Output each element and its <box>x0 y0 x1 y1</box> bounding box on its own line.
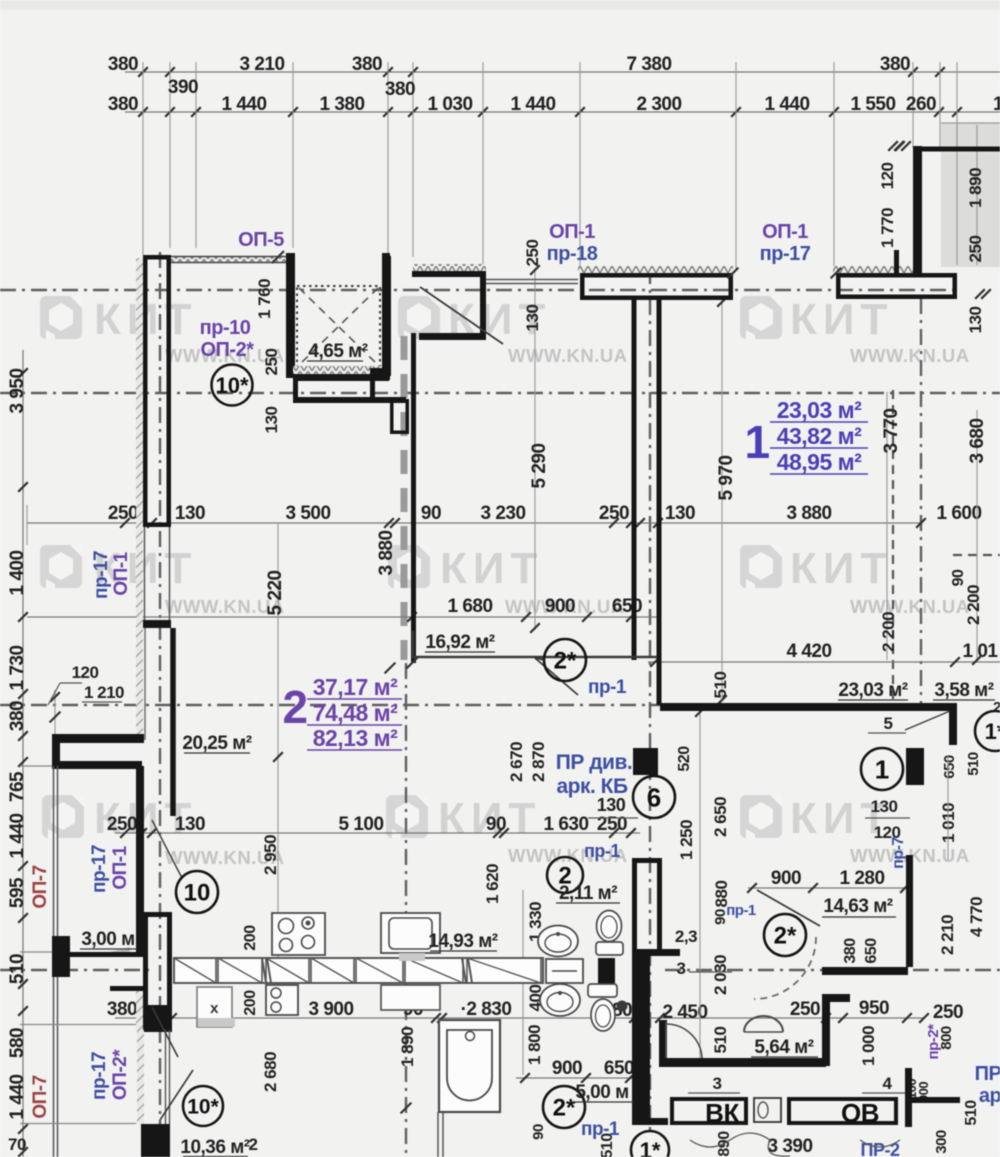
svg-text:2 670: 2 670 <box>507 742 526 782</box>
under counter appliance <box>266 985 298 1015</box>
svg-text:1 890: 1 890 <box>398 1027 417 1067</box>
shower arc <box>744 1016 783 1032</box>
svg-text:ОП-7: ОП-7 <box>30 865 51 908</box>
dashed wall y555 <box>953 554 1000 556</box>
svg-text:1*: 1* <box>640 1138 661 1157</box>
svg-text:пр-18: пр-18 <box>547 243 598 265</box>
wall x906 y855 <box>906 855 913 967</box>
svg-text:2 200: 2 200 <box>964 585 983 625</box>
entrance dashed arc <box>754 937 816 999</box>
svg-text:5 970: 5 970 <box>716 455 737 500</box>
bathtub <box>439 1020 500 1112</box>
svg-text:3 500: 3 500 <box>285 503 330 524</box>
svg-text:пр-1: пр-1 <box>584 841 620 861</box>
svg-text:10,36 м²: 10,36 м² <box>180 1137 249 1157</box>
svg-text:2 450: 2 450 <box>662 1002 707 1023</box>
leader 130/120 right <box>865 817 910 819</box>
svg-text:WWW.KN.UA: WWW.KN.UA <box>850 596 970 617</box>
window пр-18 <box>578 266 733 273</box>
svg-text:2 650: 2 650 <box>711 797 730 837</box>
svg-text:КИТ: КИТ <box>790 544 893 593</box>
svg-text:ВК: ВК <box>705 1098 739 1128</box>
svg-text:90: 90 <box>486 814 506 835</box>
svg-text:7 380: 7 380 <box>626 54 671 75</box>
kitchen sink <box>381 913 440 953</box>
svg-text:90: 90 <box>421 503 441 524</box>
svg-text:пр-17: пр-17 <box>760 243 811 265</box>
svg-text:ОП-1: ОП-1 <box>110 845 131 889</box>
svg-text:1 770: 1 770 <box>878 208 897 248</box>
bubble 2* bath <box>543 1086 585 1128</box>
svg-text:1 760: 1 760 <box>255 279 274 319</box>
svg-text:1 440: 1 440 <box>7 1074 28 1119</box>
svg-text:КИТ: КИТ <box>440 544 543 593</box>
svg-text:900: 900 <box>771 868 801 889</box>
svg-text:4 420: 4 420 <box>786 641 831 662</box>
svg-text:10*: 10* <box>187 1096 219 1119</box>
axis vertical x921 <box>920 298 922 703</box>
T wall box A <box>582 275 731 298</box>
dim row 1 <box>125 71 1000 73</box>
svg-text:3 950: 3 950 <box>7 368 28 413</box>
pier left of shaft <box>286 253 295 378</box>
washer <box>546 959 583 983</box>
svg-text:130: 130 <box>597 795 626 815</box>
svg-text:пр-1: пр-1 <box>581 1119 620 1140</box>
svg-text:1 380: 1 380 <box>319 94 364 115</box>
window lines in left wall 527-620 <box>144 527 146 620</box>
svg-text:3 880: 3 880 <box>786 503 831 524</box>
svg-text:510: 510 <box>965 752 982 776</box>
loggia divider walls <box>136 766 144 952</box>
svg-text:3 680: 3 680 <box>967 418 988 463</box>
watermark row3 <box>42 795 84 838</box>
shaft dotted box 4.65 <box>297 286 380 367</box>
svg-text:пр-17: пр-17 <box>89 845 110 893</box>
svg-text:1: 1 <box>875 754 889 784</box>
door diag room 14,63 <box>757 890 820 926</box>
loggia sills <box>20 1024 136 1026</box>
duct wall lines <box>632 300 637 660</box>
svg-text:3 390: 3 390 <box>767 1136 812 1157</box>
svg-text:3: 3 <box>713 1074 722 1093</box>
dim row y523 <box>27 522 921 524</box>
svg-text:1: 1 <box>744 416 769 468</box>
svg-text:1 620: 1 620 <box>483 864 502 904</box>
svg-text:1 01: 1 01 <box>963 641 999 662</box>
kitchen niche boundary <box>413 631 657 657</box>
leader wall5 <box>905 711 950 730</box>
dim row y617 <box>27 616 658 618</box>
svg-text:4,65 м²: 4,65 м² <box>308 341 367 362</box>
leader circle10 <box>152 820 182 878</box>
svg-text:2: 2 <box>282 681 307 733</box>
svg-text:130: 130 <box>665 503 695 524</box>
svg-text:130: 130 <box>262 407 281 434</box>
corridor double line <box>486 279 578 281</box>
svg-text:2,11 м²: 2,11 м² <box>559 883 617 904</box>
svg-text:595: 595 <box>7 877 28 908</box>
bubble 2 wc <box>547 857 583 893</box>
wall piece x906 y748 <box>906 748 924 785</box>
svg-text:510: 510 <box>7 954 28 984</box>
svg-text:ОП-2*: ОП-2* <box>110 1049 131 1100</box>
kitchen west pier box <box>146 915 170 1030</box>
wall chunk above bubble 6 <box>633 748 658 775</box>
bathroom2 sink <box>540 984 580 1016</box>
door diag hall <box>420 287 503 344</box>
svg-text:1 000: 1 000 <box>859 1026 878 1066</box>
dim row y1078 <box>516 1077 640 1079</box>
svg-text:5 290: 5 290 <box>529 443 550 488</box>
dim row y1018 <box>115 1017 924 1019</box>
svg-text:1 250: 1 250 <box>677 820 696 860</box>
svg-text:520: 520 <box>676 746 693 772</box>
svg-text:ОП-1: ОП-1 <box>762 221 808 243</box>
svg-text:580: 580 <box>7 1028 28 1058</box>
dim row y663 <box>648 661 1000 663</box>
svg-text:260: 260 <box>906 94 936 115</box>
svg-text:КИТ: КИТ <box>790 295 893 344</box>
svg-text:ар: ар <box>979 1085 1000 1107</box>
svg-text:x: x <box>210 1000 219 1017</box>
svg-text:2 870: 2 870 <box>529 742 548 782</box>
soil stack <box>617 1001 628 1012</box>
svg-text:380: 380 <box>108 94 138 115</box>
wall box bottom-left <box>52 734 144 743</box>
svg-text:16,92 м²: 16,92 м² <box>425 632 494 653</box>
dim row y888 <box>748 887 908 889</box>
svg-text:ОП-2*: ОП-2* <box>201 339 255 361</box>
svg-text:1 440: 1 440 <box>510 94 555 115</box>
svg-text:1 890: 1 890 <box>966 168 985 208</box>
svg-text:1 680: 1 680 <box>447 596 492 617</box>
svg-text:48,95 м²: 48,95 м² <box>777 449 862 475</box>
svg-text:510: 510 <box>711 1027 730 1054</box>
svg-text:6: 6 <box>647 782 661 812</box>
window ОП-5 top <box>171 256 287 263</box>
bubble 1 room1 <box>861 748 903 790</box>
door diag room2 <box>535 658 578 695</box>
black bar y620 left wall <box>143 620 171 628</box>
bubble 1* bottom <box>631 1131 669 1157</box>
svg-text:ПР див.: ПР див. <box>556 751 632 774</box>
svg-text:130: 130 <box>175 503 205 524</box>
svg-text:2 300: 2 300 <box>636 94 681 115</box>
svg-text:765: 765 <box>7 771 28 802</box>
svg-text:380: 380 <box>7 701 28 731</box>
svg-text:4: 4 <box>883 1074 893 1093</box>
svg-text:арк. КБ: арк. КБ <box>556 775 628 798</box>
svg-text:2: 2 <box>249 1135 258 1154</box>
svg-text:2 6: 2 6 <box>993 699 1000 716</box>
svg-text:1 600: 1 600 <box>936 503 981 524</box>
bubble 2* room2 <box>544 639 586 681</box>
svg-text:1 4: 1 4 <box>993 94 1000 115</box>
balcony separation wall <box>913 146 922 273</box>
svg-text:14,93 м²: 14,93 м² <box>428 931 497 952</box>
svg-text:1 210: 1 210 <box>84 683 124 702</box>
svg-text:950: 950 <box>859 998 889 1019</box>
wall y967 right <box>822 967 908 975</box>
svg-text:23,03 м²: 23,03 м² <box>838 680 907 701</box>
svg-text:ОП-7: ОП-7 <box>30 1075 51 1118</box>
svg-text:380: 380 <box>108 54 138 75</box>
svg-text:900: 900 <box>545 596 575 617</box>
svg-text:2*: 2* <box>554 648 577 675</box>
svg-text:2*: 2* <box>553 1095 576 1122</box>
WC door arc <box>665 1022 667 1058</box>
svg-text:3,58 м²: 3,58 м² <box>934 680 993 701</box>
svg-text:2,3: 2,3 <box>675 927 697 946</box>
svg-text:200: 200 <box>242 925 259 951</box>
svg-text:250: 250 <box>790 999 820 1020</box>
svg-text:250: 250 <box>108 503 138 524</box>
svg-text:70: 70 <box>8 1135 26 1154</box>
partition hatched band <box>174 958 543 983</box>
svg-text:4 770: 4 770 <box>967 897 986 937</box>
svg-text:WWW.KN.UA: WWW.KN.UA <box>850 345 970 366</box>
svg-text:90: 90 <box>530 1124 547 1140</box>
svg-text:250: 250 <box>523 240 542 267</box>
svg-text:130: 130 <box>523 305 542 332</box>
loggia diagonals <box>152 1007 178 1057</box>
axis A horizontal <box>0 289 958 291</box>
svg-text:23,03 м²: 23,03 м² <box>777 397 862 423</box>
svg-text:390: 390 <box>168 77 198 98</box>
bubble 10* loggia <box>183 1086 223 1126</box>
svg-text:250: 250 <box>597 814 627 835</box>
left dim column <box>22 350 24 1157</box>
bubble 10* hall <box>212 365 253 406</box>
svg-text:2 210: 2 210 <box>938 915 957 955</box>
svg-text:1 030: 1 030 <box>427 94 472 115</box>
bathroom2 toilet <box>588 984 617 997</box>
svg-text:3 770: 3 770 <box>881 408 902 453</box>
hatch strip left exterior wall <box>136 258 143 740</box>
svg-text:1 730: 1 730 <box>7 645 28 690</box>
bathroom1 toilet <box>596 942 623 955</box>
svg-text:130: 130 <box>871 797 898 816</box>
axis vertical x406 <box>405 663 407 1157</box>
leader 130 650 center <box>588 817 638 819</box>
axis vertical x650 <box>649 268 651 1130</box>
svg-text:5 220: 5 220 <box>265 570 286 615</box>
svg-text:250: 250 <box>599 503 629 524</box>
svg-text:1 440: 1 440 <box>7 813 28 858</box>
bubble 6 <box>633 776 675 818</box>
svg-text:пр-17: пр-17 <box>91 551 112 599</box>
svg-text:ПР: ПР <box>975 1063 1000 1085</box>
axis D horizontal <box>0 969 150 971</box>
svg-text:510: 510 <box>711 672 730 699</box>
misc ticks on walls <box>888 141 898 151</box>
svg-text:130: 130 <box>175 814 205 835</box>
dashed wall x404 <box>401 336 408 660</box>
svg-text:5: 5 <box>884 714 893 733</box>
svg-text:120: 120 <box>878 163 897 190</box>
svg-text:2 950: 2 950 <box>261 835 280 875</box>
bubble 10 kitchen <box>176 871 218 913</box>
svg-text:3 880: 3 880 <box>376 530 397 575</box>
WC walls <box>659 1020 667 1066</box>
svg-text:43,82 м²: 43,82 м² <box>777 423 862 449</box>
axis B horizontal <box>0 392 1000 394</box>
T wall box B <box>838 275 955 297</box>
svg-text:510: 510 <box>963 1100 980 1126</box>
bubble 1* right edge <box>975 711 1000 751</box>
svg-text:ОВ: ОВ <box>841 1098 879 1128</box>
svg-text:ОП-5: ОП-5 <box>238 229 284 251</box>
extension lines top <box>142 62 144 255</box>
svg-text:250: 250 <box>933 1002 963 1023</box>
svg-text:2 030: 2 030 <box>711 955 730 995</box>
x-box <box>197 987 232 1027</box>
svg-text:74,48 м²: 74,48 м² <box>313 700 398 726</box>
svg-text:90: 90 <box>950 569 967 586</box>
svg-text:200: 200 <box>242 990 259 1016</box>
svg-text:1 440: 1 440 <box>221 94 266 115</box>
loggia window west <box>53 766 55 936</box>
svg-text:120: 120 <box>874 823 901 842</box>
svg-text:2 200: 2 200 <box>879 612 898 652</box>
svg-text:·2 830: ·2 830 <box>461 999 512 1020</box>
svg-text:WWW.KN.UA: WWW.KN.UA <box>508 345 628 366</box>
entry hall walls <box>387 256 391 376</box>
left wall box top <box>145 257 169 525</box>
svg-text:120: 120 <box>72 663 99 682</box>
svg-text:10: 10 <box>184 880 211 907</box>
watermark row2 <box>40 545 82 588</box>
ВК ОВ boxes <box>672 1099 746 1123</box>
dashed wall x893 <box>892 390 894 703</box>
svg-text:650: 650 <box>604 1058 634 1079</box>
bath wall box x632 <box>635 861 660 952</box>
svg-text:380: 380 <box>880 54 910 75</box>
svg-text:5,00 м: 5,00 м <box>575 1082 628 1103</box>
svg-text:пр-10: пр-10 <box>200 317 251 339</box>
svg-text:380: 380 <box>107 999 137 1020</box>
stove <box>272 913 325 955</box>
shaft right wall <box>382 253 390 380</box>
svg-text:20,25 м²: 20,25 м² <box>182 733 251 754</box>
svg-text:650: 650 <box>612 596 642 617</box>
svg-text:пр-17: пр-17 <box>89 1052 110 1100</box>
svg-text:3 230: 3 230 <box>480 503 525 524</box>
svg-text:14,63 м²: 14,63 м² <box>823 896 892 917</box>
svg-text:250: 250 <box>966 236 985 263</box>
svg-text:1 280: 1 280 <box>839 868 884 889</box>
svg-text:380: 380 <box>352 54 382 75</box>
watermark row1 <box>40 296 82 339</box>
svg-text:3 210: 3 210 <box>239 54 284 75</box>
svg-text:1 440: 1 440 <box>764 94 809 115</box>
svg-text:1 400: 1 400 <box>7 550 28 595</box>
svg-text:3 900: 3 900 <box>308 999 353 1020</box>
interior vertical extension lines <box>534 268 536 630</box>
dim row 2 <box>125 111 1000 113</box>
svg-text:1 630: 1 630 <box>543 814 588 835</box>
svg-text:800: 800 <box>938 1026 955 1050</box>
window пр-17 top right <box>833 266 913 273</box>
svg-text:10*: 10* <box>215 373 248 398</box>
svg-text:250: 250 <box>107 814 137 835</box>
loggia2 window box ОП-2* <box>141 1124 170 1157</box>
svg-text:250: 250 <box>262 349 281 376</box>
svg-text:ПР-2: ПР-2 <box>861 1140 900 1157</box>
svg-text:82,13 м²: 82,13 м² <box>313 725 398 751</box>
svg-text:ОП-1: ОП-1 <box>549 221 595 243</box>
dim row y833 <box>115 832 640 834</box>
svg-text:3: 3 <box>677 959 686 978</box>
svg-text:650: 650 <box>941 755 958 779</box>
svg-text:300: 300 <box>933 1130 950 1154</box>
svg-text:130: 130 <box>966 307 985 334</box>
long wall y703 <box>660 703 957 711</box>
bathroom1 sink <box>538 926 578 957</box>
svg-text:2 680: 2 680 <box>261 1052 280 1092</box>
svg-text:3,00 м: 3,00 м <box>81 929 134 950</box>
svg-text:пр-1: пр-1 <box>726 902 756 919</box>
svg-text:900: 900 <box>552 1058 582 1079</box>
svg-text:5 100: 5 100 <box>338 814 383 835</box>
axis vertical x160 <box>159 252 161 1157</box>
svg-text:1*: 1* <box>985 719 1000 744</box>
neighbour grey area <box>941 123 1000 267</box>
wall below shaft <box>293 374 389 381</box>
bubble 2* right <box>764 914 806 956</box>
svg-text:1 800: 1 800 <box>525 1025 544 1065</box>
axis C horizontal <box>0 704 662 706</box>
svg-text:380: 380 <box>842 938 859 964</box>
svg-text:ОП-1: ОП-1 <box>111 551 132 595</box>
svg-text:650: 650 <box>863 938 880 964</box>
pier outline below hall <box>392 401 408 433</box>
svg-text:37,17 м²: 37,17 м² <box>313 674 398 700</box>
svg-text:1 550: 1 550 <box>850 94 895 115</box>
svg-text:пр-1: пр-1 <box>588 677 627 698</box>
svg-text:2*: 2* <box>774 923 797 950</box>
svg-text:5,64 м²: 5,64 м² <box>754 1037 813 1058</box>
svg-text:380: 380 <box>385 79 415 100</box>
